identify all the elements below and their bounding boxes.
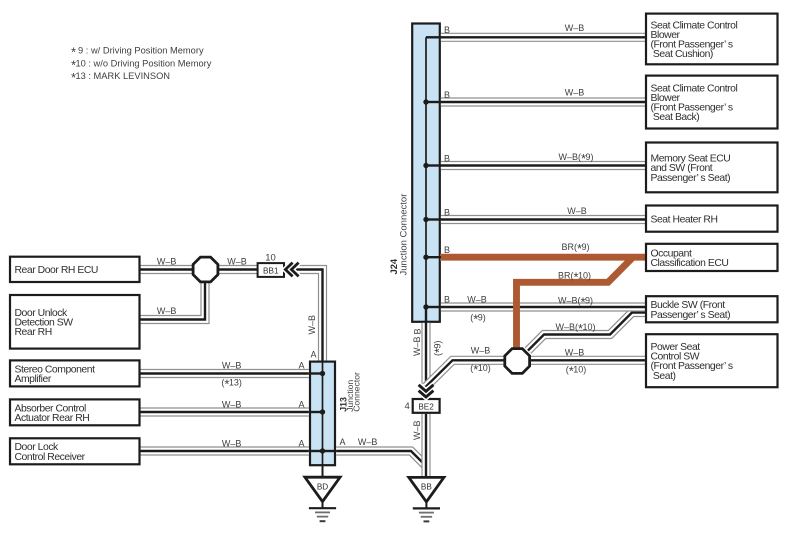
wire W-B from J13 pin A to BB ground line [336, 451, 426, 466]
wire J24 tap 5 internal [426, 256, 441, 258]
svg-text:A: A [339, 437, 345, 447]
junction connector J24 body [412, 24, 440, 322]
svg-text:A: A [310, 350, 316, 360]
wire W-B from Door Unlock Detection SW to splice [140, 280, 206, 320]
wire J24 tap 4 internal [426, 218, 441, 220]
splice point S1 left (octagon) [193, 257, 218, 282]
component box: Absorber Control Actuator Rear RH [10, 399, 140, 425]
component box: Stereo Component Amplifier [10, 360, 140, 386]
wire W-B from Absorber Control Actuator to J13 [140, 407, 309, 416]
wire BR(*9) from J24 to Occupant Classification ECU (brown) [440, 254, 647, 261]
component box: Door Unlock Detection SW Rear RH [10, 295, 140, 349]
wire J13 tap stereo internal [310, 372, 323, 374]
svg-text:W–B: W–B [467, 295, 487, 305]
wire wire J13 to BD ground [322, 465, 324, 477]
svg-text:BB: BB [421, 483, 432, 492]
svg-text:W–B: W–B [157, 306, 177, 316]
svg-text:W–B: W–B [307, 315, 317, 335]
svg-text:J24: J24 [388, 258, 399, 274]
svg-text:W–B: W–B [565, 348, 585, 358]
wire W-B from Door Lock Control Receiver to J13 [140, 446, 309, 455]
junction dot J24 tap 6 [423, 304, 428, 309]
svg-text:A: A [298, 439, 304, 449]
component box: Seat Heater RH [646, 206, 778, 232]
svg-text:B: B [444, 25, 450, 35]
wire W-B(*10) from main line to splice [426, 360, 505, 386]
connector BE2 [413, 399, 440, 413]
svg-text:Passenger’ s Seat): Passenger’ s Seat) [651, 173, 731, 184]
svg-text:BD: BD [317, 482, 328, 491]
wire W-B from J24 to Seat Climate Control Blower back [441, 97, 645, 106]
component box: Seat Climate Control Blower (Front Passenger's Seat Back) [646, 76, 778, 129]
svg-text:10: 10 [265, 252, 276, 263]
wire W-B from BB1 connector to J13 top [294, 270, 323, 361]
wire J24 tap 6 internal [426, 306, 441, 308]
component box: Memory Seat ECU and SW [646, 143, 778, 193]
wire W-B(*10) from splice to Buckle SW [528, 313, 645, 351]
svg-text:Junction Connector: Junction Connector [399, 194, 410, 276]
wire W-B(*9) from J24 to Buckle SW [441, 302, 645, 311]
svg-text:W–B: W–B [565, 23, 585, 33]
junction dot J24 tap 5 [423, 255, 428, 260]
wire W-B from J24 to Seat Climate Control Blower cushion [441, 33, 645, 42]
component box: Power Seat Control SW [646, 334, 778, 387]
connector arrows into BE2 (double chevron) [419, 385, 434, 397]
junction dot J13 tap 3 [320, 448, 325, 453]
ground BD [305, 477, 340, 521]
splice point S2 right (octagon) [505, 349, 530, 374]
wire J13 tap absorber internal [310, 411, 323, 413]
svg-text:B: B [444, 295, 450, 305]
junction connector J13 body [310, 362, 335, 466]
wire W-B(*9) from J24 to Memory Seat ECU [441, 161, 645, 170]
svg-text:BB1: BB1 [263, 267, 279, 276]
wire W-B from splice to Power Seat Control SW [530, 356, 645, 365]
svg-text:Rear RH: Rear RH [15, 327, 52, 338]
wire BR(*10) branch to splice (brown) [517, 257, 634, 350]
component box: Occupant Classification ECU [646, 244, 778, 271]
wire J13 internal bus line [322, 362, 324, 466]
wire J24 tap 2 internal [426, 101, 441, 103]
svg-text:Seat Back): Seat Back) [651, 112, 700, 123]
svg-text:BE2: BE2 [418, 403, 434, 412]
svg-text:Rear Door RH ECU: Rear Door RH ECU [15, 265, 98, 276]
svg-text:4: 4 [405, 401, 410, 412]
component box: Door Lock Control Receiver [10, 438, 140, 464]
ground BB [409, 477, 444, 521]
svg-text:Actuator Rear RH: Actuator Rear RH [15, 413, 90, 424]
connector arrows into BB1 (double chevron) [285, 263, 298, 277]
wire J24 tap 3 internal [426, 164, 441, 166]
junction dot J24 tap 2 [423, 99, 428, 104]
svg-text:Passenger’ s Seat): Passenger’ s Seat) [651, 310, 731, 321]
wire W-B from BE2 to BB ground [421, 414, 430, 478]
svg-text:W–B: W–B [471, 346, 491, 356]
svg-text:B: B [444, 154, 450, 164]
svg-text:W–B: W–B [567, 206, 587, 216]
svg-text:W–B: W–B [222, 361, 242, 371]
junction dot J13 tap 1 [320, 371, 325, 376]
component box: Buckle SW (Front Passenger's Seat) [646, 296, 778, 322]
svg-text:Control Receiver: Control Receiver [15, 452, 86, 463]
wire J24 internal exit to bottom [425, 306, 427, 324]
svg-text:W–B: W–B [358, 437, 378, 447]
svg-text:W–B: W–B [412, 336, 422, 356]
svg-text:A: A [298, 400, 304, 410]
svg-text:Seat Heater RH: Seat Heater RH [651, 214, 718, 225]
svg-text:A: A [298, 361, 304, 371]
wire W-B from J24 bottom to BE2 [421, 323, 430, 398]
junction dot J24 tap 4 [423, 217, 428, 222]
connector BB1 [258, 263, 284, 277]
svg-text:Amplifier: Amplifier [15, 374, 52, 385]
svg-text:Classification ECU: Classification ECU [651, 258, 729, 269]
wire J24 tap 1 internal [426, 36, 441, 38]
svg-text:B: B [444, 208, 450, 218]
svg-text:W–B: W–B [157, 257, 177, 267]
wire J13 tap right internal [323, 450, 336, 452]
svg-text:B: B [444, 90, 450, 100]
svg-text:Seat): Seat) [651, 371, 676, 382]
junction dot J24 tap 3 [423, 163, 428, 168]
svg-text:W–B: W–B [565, 88, 585, 98]
junction dot J13 tap 2 [320, 409, 325, 414]
wire W-B from Rear Door RH ECU to splice to BB1 [140, 265, 258, 274]
wire J13 tap door-lock internal [310, 450, 323, 452]
svg-text:W–B: W–B [227, 257, 247, 267]
svg-text:B: B [413, 328, 423, 334]
svg-text:W–B: W–B [412, 420, 422, 440]
svg-text:W–B: W–B [222, 400, 242, 410]
component box: Rear Door RH ECU [10, 257, 140, 282]
component box: Seat Climate Control Blower (Front Passenger's Seat Cushion) [646, 14, 778, 65]
svg-text:Seat Cushion): Seat Cushion) [651, 49, 713, 60]
wire W-B from Stereo Component Amplifier to J13 [140, 369, 309, 378]
svg-text:W–B: W–B [222, 439, 242, 449]
svg-text:Connector: Connector [352, 372, 362, 412]
wire J24 internal bus line [425, 37, 427, 307]
svg-text:B: B [444, 245, 450, 255]
wire W-B from J24 to Seat Heater RH [441, 215, 645, 224]
